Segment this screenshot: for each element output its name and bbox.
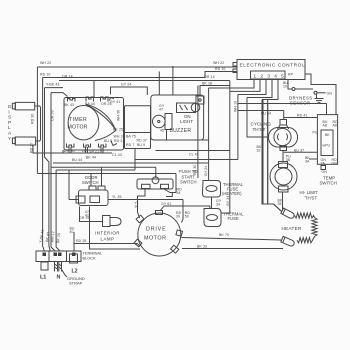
svg-text:S: S [8,115,11,121]
wire heater feeds [262,100,282,212]
svg-text:BU 44: BU 44 [72,158,82,162]
wire EC right [305,74,336,115]
svg-text:GY 24: GY 24 [204,166,208,176]
svg-text:BLOCK: BLOCK [83,256,97,261]
wire y153 [62,150,64,153]
wire RD 41 [284,114,318,118]
svg-text:BK 25: BK 25 [113,128,123,132]
wire GY 51 [160,202,210,211]
svg-text:DRIVE: DRIVE [146,227,166,233]
svg-text:34: 34 [216,203,220,207]
wire node left [51,93,68,251]
svg-text:L1: L1 [40,275,46,281]
svg-text:'TH'ST: 'TH'ST [304,195,317,200]
heater R1 [282,213,318,243]
wires into box top [159,66,173,95]
svg-text:A8: A8 [333,124,337,128]
terminal block [36,251,103,262]
svg-text:Y-BK 43: Y-BK 43 [46,83,59,87]
svg-text:BUZZER: BUZZER [170,128,192,134]
svg-text:3A: 3A [305,160,310,164]
wire pin2 chain [221,80,260,214]
temp switch box [305,115,338,186]
svg-text:50: 50 [185,215,189,219]
bottom wire labels rotated [39,229,61,243]
svg-text:C1 43: C1 43 [112,153,122,157]
svg-text:MOTOR: MOTOR [68,125,88,131]
wire BU 37 [284,149,318,153]
wire RD 10 [40,67,237,251]
svg-text:(HEATER): (HEATER) [222,191,242,196]
svg-text:SENSOR: SENSOR [290,101,311,106]
svg-text:1 2 3 4 5: 1 2 3 4 5 [254,74,286,79]
wire BK 18 [193,82,230,179]
label DISPLAY [8,104,12,142]
svg-text:GN: GN [327,91,333,95]
wire pin5 chain [262,80,278,100]
svg-text:BK 70: BK 70 [219,233,229,237]
svg-text:OR 39: OR 39 [79,216,90,220]
wire pin3 chain [233,80,266,160]
svg-text:BK 43: BK 43 [64,103,74,107]
svg-text:ELECTRONIC CONTROL: ELECTRONIC CONTROL [240,63,306,69]
contact on box top [196,96,204,104]
svg-text:GY 34: GY 34 [226,196,230,206]
svg-text:RD 37: RD 37 [137,139,147,143]
svg-text:N: N [57,275,61,281]
svg-text:P: P [8,120,11,126]
svg-text:TEMP: TEMP [323,175,335,180]
svg-text:34: 34 [177,191,181,195]
cycling thermostat [251,120,298,153]
door switch [76,167,108,205]
wire Y-BK 43 [45,83,64,252]
svg-text:LU: LU [82,149,87,153]
svg-text:HI- LIMIT: HI- LIMIT [300,190,319,195]
svg-text:BK 44: BK 44 [86,156,96,160]
svg-text:wPU: wPU [323,144,331,148]
wire GY 42 [85,207,140,250]
wire pts right [164,174,176,197]
svg-text:32: 32 [257,149,261,153]
timer bottom contacts [64,141,122,157]
wire between fuses [212,197,222,208]
svg-text:D: D [8,104,12,110]
ground strap label [62,270,85,286]
timer inner box [104,106,151,149]
svg-text:BK: BK [325,133,330,137]
wire YL 35 [108,195,183,223]
svg-text:PUSH TO: PUSH TO [179,169,198,174]
svg-text:L2: L2 [72,268,78,274]
svg-text:GY 51: GY 51 [161,202,171,206]
svg-text:FUSE: FUSE [228,216,239,221]
svg-text:A8: A8 [323,124,327,128]
svg-text:INTERIOR: INTERIOR [95,231,120,236]
wire BU 44 [238,111,284,120]
svg-text:40: 40 [70,230,74,234]
drive motor M1 [134,211,182,257]
ground strap N [55,262,62,281]
svg-text:GY 24: GY 24 [121,83,131,87]
svg-text:BU 8: BU 8 [104,139,112,143]
svg-text:SWITCH: SWITCH [82,180,99,185]
svg-text:47: 47 [159,108,163,112]
svg-text:BK 18: BK 18 [202,82,212,86]
push-to-start switch [137,169,198,195]
svg-text:OR 14: OR 14 [204,75,215,79]
svg-text:3A: 3A [321,161,326,165]
wire YL 34 [135,189,146,218]
svg-text:34: 34 [135,205,139,209]
on-light buzzer box [151,95,209,140]
wire timer bottom bus [69,147,103,160]
svg-text:RD 3: RD 3 [114,139,122,143]
svg-text:RP: RP [288,73,294,77]
svg-text:TH'ST: TH'ST [253,127,266,132]
terminal L1 [40,262,48,281]
hi-limit thermostat [270,162,318,201]
heater terminal top [281,208,295,219]
svg-text:GY 41: GY 41 [110,100,120,104]
svg-text:GN: GN [332,161,338,165]
svg-text:BU 9: BU 9 [137,143,145,147]
svg-text:RD 10: RD 10 [215,67,225,71]
svg-text:OR 14: OR 14 [62,75,73,79]
svg-text:START: START [182,174,196,179]
wire door feed [37,167,176,251]
wire pin4 chain [247,80,272,138]
wire OR 14 [59,75,230,98]
timer cam [86,105,116,141]
terminal L2 [70,254,78,274]
svg-text:STRAP: STRAP [69,281,83,286]
dryness sensor [289,88,332,106]
svg-text:35: 35 [278,202,282,206]
svg-text:YL 35: YL 35 [112,195,122,199]
svg-text:B4 21: B4 21 [90,149,100,153]
svg-text:SWITCH: SWITCH [320,181,337,186]
wire RD 50 [176,211,190,219]
wire RD 28 [70,227,141,252]
svg-text:BK 33: BK 33 [197,245,207,249]
svg-text:PU: PU [313,131,318,135]
svg-text:L: L [8,125,11,131]
svg-text:BA 75: BA 75 [126,135,136,139]
wire heater feed [263,99,281,211]
svg-text:LIGHT: LIGHT [180,119,193,124]
svg-text:30: 30 [176,215,180,219]
wire RP to sensor [283,80,292,90]
wire BK 33 [182,245,283,249]
svg-text:WH 31: WH 31 [114,135,125,139]
svg-text:RD 41: RD 41 [297,114,307,118]
wire BK 35 [278,192,283,210]
svg-text:RD 28: RD 28 [76,239,86,243]
svg-text:TIMER: TIMER [69,117,87,123]
wire WH 22 top [37,61,237,174]
thermal fuse F2 [204,209,244,227]
svg-text:LAMP: LAMP [101,237,115,242]
electronic control U1 [233,60,305,80]
svg-text:BA 44: BA 44 [85,102,95,106]
svg-text:19: 19 [283,85,287,89]
wire PU 38 [283,151,291,163]
svg-text:OR 39: OR 39 [51,110,55,121]
wire pin1 chain GY24 [204,80,254,181]
svg-text:RD 10: RD 10 [40,73,50,77]
wire GY 24 top [111,83,148,96]
svg-text:WH 22: WH 22 [213,61,224,65]
wire bus y103.5 [238,104,327,115]
timer top contacts [64,97,120,107]
svg-text:BU 37: BU 37 [294,149,304,153]
svg-text:45: 45 [160,129,164,133]
svg-text:CL 43: CL 43 [189,153,199,157]
svg-text:HEATER: HEATER [282,226,302,231]
svg-text:SWITCH: SWITCH [180,180,197,185]
svg-text:RD 7: RD 7 [126,143,134,147]
on light [159,103,200,124]
heater terminal bottom [281,236,295,247]
svg-text:CYCLING: CYCLING [251,122,272,127]
svg-text:I: I [8,109,9,115]
wire BK 70 [182,233,282,240]
svg-text:WH 19: WH 19 [233,101,237,112]
ground sensor [315,94,324,102]
timer motor [68,106,99,140]
timer box [64,98,124,151]
svg-text:WH 22: WH 22 [40,61,51,65]
svg-text:RD 30: RD 30 [31,114,35,124]
thermal fuse F1 [203,181,244,198]
svg-text:WH 36: WH 36 [117,110,121,121]
interior lamp [79,207,121,242]
svg-text:MOTOR: MOTOR [144,236,166,242]
buzzer [153,114,192,141]
svg-text:GN: GN [322,170,328,174]
display connector [12,102,112,153]
wire BU 44 bottom [53,149,238,178]
